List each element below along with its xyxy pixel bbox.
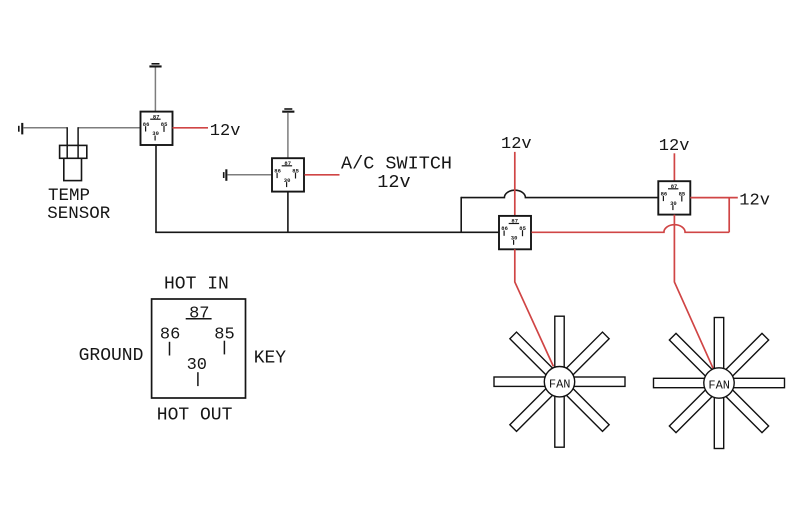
wire: 12v feed down to relay R4 pin 87 (red) — [673, 153, 675, 181]
relay R4 — [658, 181, 690, 214]
svg-text:87: 87 — [189, 304, 209, 323]
svg-text:12v: 12v — [210, 122, 241, 141]
wire: V1 down to relay R1 pin 87 (gray) — [154, 68, 156, 112]
relay legend box — [152, 299, 246, 398]
svg-text:12v: 12v — [377, 172, 410, 193]
wire: relay R1 pin 85 to 12v label (red) — [173, 127, 209, 129]
legend pin 86 tick — [169, 342, 171, 356]
svg-text:HOT IN: HOT IN — [164, 275, 229, 295]
svg-text:FAN: FAN — [708, 379, 730, 393]
wire: relay R2 pin 30 down to bus (black) — [287, 192, 289, 233]
relay R1 — [141, 112, 173, 145]
wire: relay R4 pin 85 to 12v label (red) — [690, 197, 738, 199]
wire: V2 down to relay R2 pin 87 (gray) — [287, 113, 289, 159]
relay R2 — [272, 158, 304, 191]
svg-text:TEMP: TEMP — [48, 186, 90, 206]
legend pin 87 underline — [186, 318, 212, 320]
wire: relay R2 pin 85 to A/C switch label (red) — [305, 174, 340, 176]
wire: relay R3 pin 30 down to FAN1 (red) — [515, 249, 554, 366]
svg-text:12v: 12v — [739, 192, 770, 211]
power symbol V2 (above relay R2) — [282, 108, 294, 113]
wire: relay R3 pin 85 across to right 12v with hop over fan2 feed (red) — [532, 225, 730, 233]
svg-text:SENSOR: SENSOR — [47, 204, 111, 224]
temp sensor TS1 — [60, 127, 87, 180]
svg-text:30: 30 — [187, 356, 207, 375]
svg-text:GROUND: GROUND — [79, 346, 144, 366]
wire: red drop from R4 right wire down (red) — [728, 198, 730, 233]
svg-text:FAN: FAN — [549, 377, 571, 391]
legend pin 85 tick — [223, 341, 225, 355]
wire: temp sensor to relay R1 pin 86 (gray) — [78, 127, 140, 129]
wire: G2 to relay R2 pin 86 (gray) — [227, 174, 272, 176]
wire: G1 to temp sensor (gray) — [23, 127, 67, 129]
ground G1 (far left) — [18, 123, 23, 134]
wire: upper bus to relay R4 with hop over red feed (black) — [461, 190, 658, 197]
wire: bus branch up at node (black) — [460, 197, 462, 233]
wire: 12v feed down to relay R3 pin 87 (red) — [514, 152, 516, 216]
label TEMP SENSOR — [47, 186, 111, 224]
ground G2 (left of relay R2) — [223, 169, 228, 181]
svg-text:86: 86 — [160, 326, 180, 345]
svg-text:KEY: KEY — [254, 348, 287, 368]
fan FAN1 — [494, 316, 625, 447]
svg-text:HOT OUT: HOT OUT — [157, 405, 233, 425]
fan FAN2 — [654, 318, 785, 449]
relay R3 — [499, 216, 531, 249]
wire: main hot-out bus (black) — [155, 231, 499, 233]
legend pin 30 tick — [197, 372, 199, 386]
svg-text:12v: 12v — [501, 135, 532, 154]
wire: relay R4 pin 30 down to FAN2 (red) — [674, 215, 713, 370]
wire: relay R1 pin 30 down to bus (black) — [155, 145, 157, 232]
power symbol V1 (above relay R1) — [149, 63, 161, 68]
